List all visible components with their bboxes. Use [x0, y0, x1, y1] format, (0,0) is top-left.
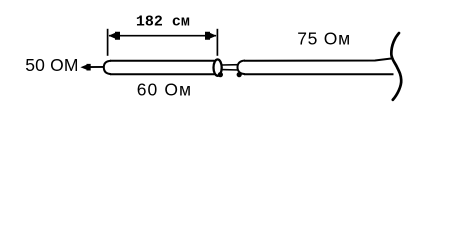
- inner conductor stub top: [222, 64, 239, 66]
- dimension extension line right: [216, 29, 218, 56]
- svg-text:75 Ом: 75 Ом: [297, 29, 351, 49]
- cable 2 (75 Ом) left rounded cap: [238, 61, 246, 75]
- cable 1 (60 Ом) left rounded cap: [104, 61, 111, 74]
- svg-text:60 Ом: 60 Ом: [137, 80, 192, 100]
- svg-text:182 см: 182 см: [136, 14, 190, 31]
- svg-text:50 ОМ: 50 ОМ: [25, 55, 79, 75]
- dimension arrowhead right: [205, 32, 217, 40]
- break squiggle: [391, 33, 401, 100]
- feed arrow wire: [85, 66, 104, 68]
- cable 1 bottom wall: [110, 73, 215, 75]
- inner conductor stub bottom: [222, 69, 239, 71]
- dimension arrowhead left: [109, 32, 121, 40]
- junction dot right: [237, 72, 242, 77]
- cable 1 top wall: [110, 60, 215, 62]
- junction dot left: [218, 72, 223, 77]
- cable 2 bottom wall: [244, 73, 394, 75]
- dimension line: [109, 35, 216, 37]
- cable 2 top wall: [244, 58, 393, 61]
- feed arrowhead: [80, 64, 90, 71]
- cable 1 open-end ellipse: [214, 59, 222, 75]
- dimension extension line left: [107, 29, 109, 56]
